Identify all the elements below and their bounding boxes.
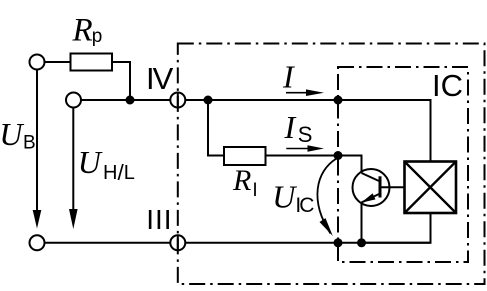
svg-text:IC: IC <box>295 194 314 217</box>
resistor RI <box>224 147 266 165</box>
svg-text:IV: IV <box>146 61 174 96</box>
arrow UB <box>36 70 38 213</box>
outer dash-dot box <box>178 44 485 285</box>
bottom rail wire right <box>185 242 430 244</box>
arrow I <box>286 92 309 94</box>
svg-text:U: U <box>272 179 297 215</box>
junction J5 <box>357 238 366 247</box>
wire IV to X-box top <box>185 100 430 162</box>
junction J4 <box>334 238 343 247</box>
wire RI to J3 <box>266 155 339 157</box>
resistor Rp <box>71 54 113 71</box>
terminal T1 <box>30 55 45 70</box>
inner dash-dot box IC boundary <box>338 67 468 262</box>
transistor Q1 <box>353 169 405 206</box>
junction J0 <box>126 96 135 105</box>
junction J1 <box>204 96 213 105</box>
svg-text:I: I <box>284 109 297 145</box>
svg-text:p: p <box>92 26 103 47</box>
wire emitter to rail <box>361 203 363 243</box>
IC block X-box U1 <box>405 162 457 214</box>
svg-text:R: R <box>232 164 251 197</box>
svg-text:R: R <box>72 13 93 49</box>
svg-text:U: U <box>78 144 103 180</box>
wire T2 to terminal IV <box>81 99 170 101</box>
terminal T0 <box>30 235 45 250</box>
svg-text:III: III <box>146 204 172 235</box>
arrow UHL <box>72 108 74 212</box>
junction J2 <box>334 96 343 105</box>
arrow UIC curved <box>317 159 336 234</box>
svg-text:I: I <box>282 58 295 94</box>
svg-text:S: S <box>298 122 313 147</box>
wire X-box bottom to rail <box>362 213 431 243</box>
junction J3 <box>334 151 343 160</box>
bottom rail wire left <box>45 242 171 244</box>
svg-text:H/L: H/L <box>103 160 135 185</box>
wire Rp to junction J0 <box>112 62 130 100</box>
arrow IS <box>286 148 310 150</box>
terminal IV <box>170 93 185 108</box>
terminal T2 <box>66 93 81 108</box>
svg-text:IC: IC <box>432 68 463 103</box>
wire J3 to transistor collector <box>338 156 362 174</box>
svg-text:B: B <box>23 132 36 153</box>
svg-text:U: U <box>0 116 24 152</box>
svg-text:I: I <box>252 180 257 201</box>
wire J1 down to RI <box>208 100 224 156</box>
wire T1 to Rp <box>45 61 71 63</box>
terminal III <box>170 235 185 250</box>
